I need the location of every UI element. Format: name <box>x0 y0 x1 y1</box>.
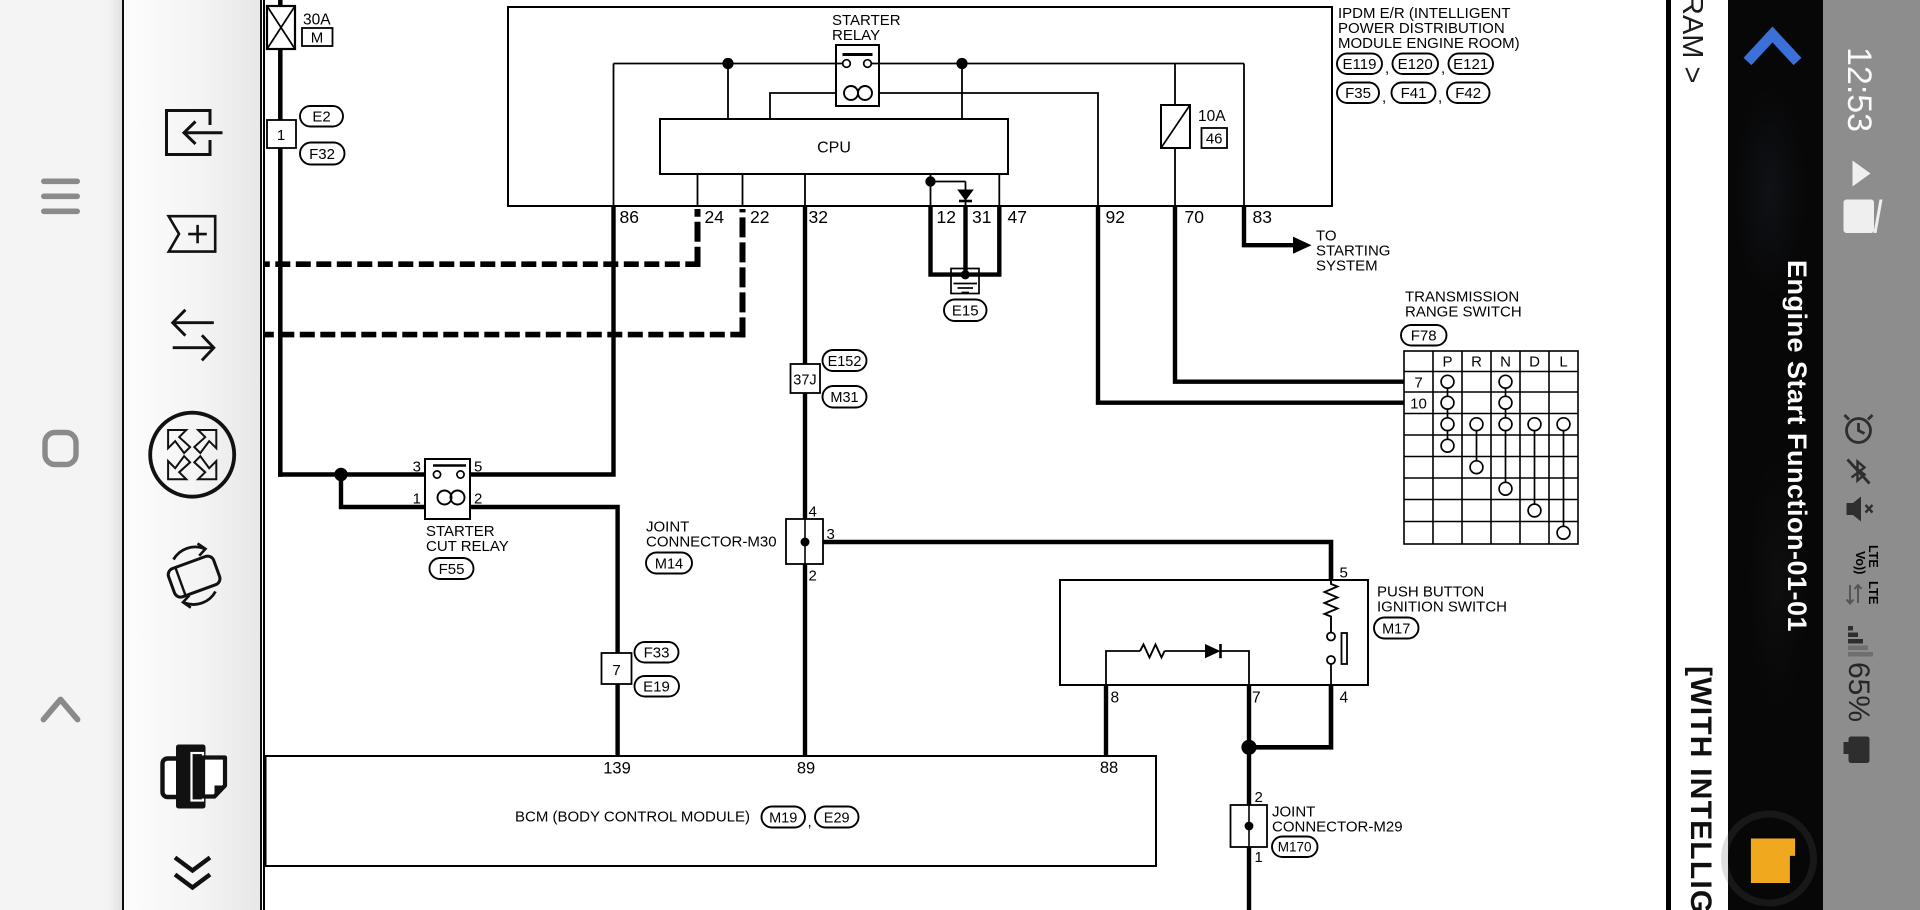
wire pin 70 to range switch row 7 <box>1175 206 1404 382</box>
status mute icon <box>1847 497 1873 522</box>
svg-text:M14: M14 <box>655 557 683 573</box>
svg-text:E2: E2 <box>312 109 330 126</box>
switch contacts column L <box>1557 418 1570 539</box>
collapse chevron (blue) <box>1748 35 1798 62</box>
arrow to starting system <box>1293 237 1312 254</box>
wire pin 7 down <box>1247 685 1251 805</box>
push button switch contacts <box>1327 633 1347 686</box>
svg-text:2: 2 <box>1255 789 1263 806</box>
svg-text:92: 92 <box>1106 207 1125 227</box>
fuse number 46 <box>1202 128 1228 148</box>
svg-text:RELAY: RELAY <box>832 27 880 44</box>
connector label E152 <box>823 350 867 371</box>
screenshot thumbnail icon <box>1751 839 1795 884</box>
tool exit icon <box>167 111 223 155</box>
svg-text:F41: F41 <box>1401 85 1427 102</box>
connector label F55 <box>430 558 474 579</box>
svg-text:BCM (BODY CONTROL MODULE): BCM (BODY CONTROL MODULE) <box>515 809 750 826</box>
svg-text:37J: 37J <box>793 373 816 389</box>
wire <box>1165 650 1206 652</box>
wire junction to CPU <box>727 64 729 120</box>
svg-text:47: 47 <box>1008 207 1027 227</box>
svg-text:CPU: CPU <box>817 140 851 157</box>
connector pin 1 (E2/F32) <box>267 120 296 148</box>
junction node on pin 12 line <box>925 176 935 186</box>
wire to pin 83 <box>1243 64 1245 207</box>
connector label E2 <box>300 106 343 127</box>
page footer text [WITH INTELLIG <box>1683 666 1717 910</box>
connector label F32 <box>300 143 345 165</box>
wire 37J to joint connector M30 <box>803 393 807 519</box>
CPU box <box>660 119 1008 174</box>
wire relay coil left to CPU <box>770 93 836 119</box>
wire pin 31 to ground <box>963 206 967 272</box>
svg-text:88: 88 <box>1100 759 1118 777</box>
starter relay <box>836 45 879 106</box>
svg-text:7: 7 <box>1252 690 1261 707</box>
switch contacts column D <box>1528 418 1541 517</box>
connector label E29 <box>815 807 859 828</box>
ground label E15 <box>944 300 987 322</box>
tool add-bookmark icon <box>169 216 216 251</box>
connector label F41 <box>1392 83 1436 104</box>
svg-text:46: 46 <box>1206 131 1223 148</box>
wire relay pin5 to IPDM pin 86 <box>470 206 614 475</box>
svg-text:Vo)): Vo)) <box>1853 551 1867 574</box>
svg-text:,: , <box>1382 89 1386 106</box>
status 65% <box>1841 662 1875 722</box>
fusible link 30A M (battery feed) <box>267 6 295 49</box>
wire M30 pin 3 to push button switch <box>823 542 1331 580</box>
starter cut relay F55 <box>425 459 470 519</box>
svg-text:F35: F35 <box>1345 85 1371 102</box>
transmission range switch contact table F78 <box>1404 351 1578 544</box>
svg-text:86: 86 <box>620 207 639 227</box>
wire relay coil to pin 92 <box>879 93 1098 206</box>
wire to starter cut relay pin 3 <box>278 472 427 476</box>
wire pin 12 to ground <box>931 206 964 275</box>
connector label F78 <box>1401 325 1447 346</box>
svg-text:10A: 10A <box>1198 108 1226 125</box>
svg-text:E121: E121 <box>1453 56 1488 73</box>
nav collapse icon <box>44 700 78 720</box>
wire M29 down off page <box>1247 847 1251 910</box>
svg-text:E29: E29 <box>824 811 850 827</box>
svg-text:3: 3 <box>413 459 421 476</box>
connector label E119 <box>1337 54 1382 75</box>
resistor R2 <box>1140 645 1165 658</box>
BCM body control module box <box>266 756 1157 866</box>
svg-text:M170: M170 <box>1278 840 1312 855</box>
status alarm icon <box>1845 415 1873 443</box>
switch contacts column R <box>1470 418 1483 474</box>
svg-text:70: 70 <box>1185 207 1205 227</box>
svg-text:M: M <box>311 30 324 47</box>
tool print icon <box>163 745 226 809</box>
wire pin 4 joins pin 7 wire <box>1249 685 1331 747</box>
wire to pin 7 <box>1221 651 1250 685</box>
wire pin 32 to joint connector 37J <box>803 206 807 364</box>
push button ignition switch box M17 <box>1060 580 1368 685</box>
connector label M14 <box>646 553 692 574</box>
svg-text:E119: E119 <box>1343 56 1377 73</box>
svg-text:83: 83 <box>1253 207 1272 227</box>
wire junction to CPU <box>961 64 963 120</box>
page header text RAM > <box>1675 0 1708 83</box>
wire relay contact to pin 86 column <box>614 63 843 65</box>
connector label E19 <box>635 676 680 697</box>
connector label F35 <box>1337 83 1379 104</box>
svg-text:F55: F55 <box>439 561 465 578</box>
svg-text:E152: E152 <box>828 354 862 370</box>
svg-text:89: 89 <box>797 760 815 778</box>
ripple highlight ring <box>1725 814 1814 903</box>
nav menu icon <box>41 179 80 215</box>
joint connector 37J (E152/M31) <box>791 364 821 393</box>
wire pin 8 to BCM pin 88 <box>1104 685 1108 756</box>
svg-text:LTE: LTE <box>1866 545 1880 568</box>
status VoLTE icon <box>1853 545 1880 574</box>
svg-text:M17: M17 <box>1382 622 1410 638</box>
svg-text:CONNECTOR-M30: CONNECTOR-M30 <box>646 534 777 551</box>
IPDM E/R module box <box>508 7 1332 206</box>
connector label M19 <box>762 807 806 828</box>
connector label M170 <box>1272 837 1318 858</box>
svg-text:M31: M31 <box>830 390 858 406</box>
svg-text:E120: E120 <box>1398 56 1433 73</box>
svg-text:32: 32 <box>809 207 828 227</box>
svg-text:F32: F32 <box>309 146 335 163</box>
svg-text:139: 139 <box>603 760 631 778</box>
wire pin 83 to starting system <box>1244 206 1293 245</box>
status dropdown triangle <box>1853 161 1871 187</box>
tool fullscreen icon <box>150 413 234 497</box>
ground E15 <box>951 269 979 294</box>
wire battery feed down left side <box>278 148 283 477</box>
shielded wire to IPDM pin 22 <box>264 209 745 337</box>
status LTE icon <box>1847 581 1882 605</box>
svg-text:F42: F42 <box>1455 85 1481 102</box>
junction node <box>956 58 967 69</box>
connector label M31 <box>823 386 867 408</box>
svg-text:E15: E15 <box>952 303 979 320</box>
tool rotate icon <box>166 544 221 608</box>
wire fuse to pin 70 <box>1174 148 1176 206</box>
svg-text:,: , <box>808 814 812 831</box>
svg-text:N: N <box>1500 354 1511 371</box>
wire branch to relay pin 1 <box>341 475 427 508</box>
column headers P R N D L <box>1410 354 1568 413</box>
tool swap icon <box>173 310 214 361</box>
wire M30 to BCM pin 89 <box>803 564 807 756</box>
svg-text:E19: E19 <box>643 679 670 696</box>
svg-text:1: 1 <box>1255 849 1263 866</box>
svg-text:M19: M19 <box>769 811 797 827</box>
wire fuse to connector 1 <box>278 49 283 120</box>
joint connector M30 (M14) <box>786 519 823 564</box>
connector label F33 <box>635 642 679 663</box>
svg-text:R: R <box>1471 354 1482 371</box>
wire relay pin2 to connector 7 <box>470 507 618 653</box>
fuse 10A 46 <box>1161 105 1190 148</box>
svg-text:D: D <box>1529 354 1540 371</box>
status signal icon <box>1848 626 1873 657</box>
svg-text:1: 1 <box>277 127 285 144</box>
status time 12:53 <box>1839 47 1878 132</box>
status battery (bottom) <box>1844 737 1870 764</box>
svg-text:4: 4 <box>1340 690 1349 707</box>
svg-text:10: 10 <box>1410 396 1427 413</box>
tool expand-more icon <box>175 858 210 888</box>
svg-text:F78: F78 <box>1411 328 1437 345</box>
svg-text:F33: F33 <box>644 645 670 662</box>
svg-text:5: 5 <box>1340 565 1348 582</box>
nav recents icon <box>45 433 76 465</box>
svg-text:4: 4 <box>809 504 817 521</box>
svg-text:7: 7 <box>1414 375 1422 392</box>
svg-text:CONNECTOR-M29: CONNECTOR-M29 <box>1272 819 1403 836</box>
wire pin 47 to ground <box>968 206 999 275</box>
junction node <box>1241 740 1256 755</box>
connector label M17 <box>1374 618 1419 639</box>
svg-text:SYSTEM: SYSTEM <box>1316 258 1378 275</box>
status battery (top) <box>1844 200 1883 234</box>
resistor R (illumination) <box>1325 580 1338 633</box>
app title Engine Start Function-01-01 <box>1781 260 1812 632</box>
CPU pin stubs <box>697 174 699 206</box>
shielded wire to IPDM pin 24 <box>264 209 700 267</box>
svg-text:LTE: LTE <box>1866 581 1881 605</box>
svg-text:P: P <box>1442 354 1452 371</box>
svg-text:31: 31 <box>972 207 991 227</box>
svg-text:,: , <box>1385 60 1389 77</box>
connector label E121 <box>1449 54 1494 75</box>
switch contacts column P <box>1441 375 1454 452</box>
svg-text:1: 1 <box>413 491 421 508</box>
svg-text:RANGE SWITCH: RANGE SWITCH <box>1405 304 1522 321</box>
junction node <box>334 468 347 481</box>
diode D2 <box>1205 644 1221 658</box>
diode D1 to pin 31 <box>931 182 974 207</box>
wire to fuse 10A <box>1174 64 1176 106</box>
switch contacts column N <box>1499 375 1512 495</box>
wire relay contact right to pin 83 corner <box>871 63 1244 65</box>
svg-text:,: , <box>1441 60 1445 77</box>
wire connector 7 to BCM pin 139 <box>615 684 619 756</box>
junction node <box>722 58 733 69</box>
svg-text:7: 7 <box>612 662 620 679</box>
connector 7 (F33/E19) <box>602 653 632 684</box>
svg-text:22: 22 <box>750 207 769 227</box>
svg-text:MODULE ENGINE ROOM): MODULE ENGINE ROOM) <box>1338 35 1520 52</box>
svg-text:IGNITION SWITCH: IGNITION SWITCH <box>1377 599 1507 616</box>
joint connector M29 (M170) <box>1231 805 1268 847</box>
svg-text:12: 12 <box>937 207 956 227</box>
connector label F42 <box>1447 83 1490 104</box>
svg-text:CUT RELAY: CUT RELAY <box>426 538 509 555</box>
fuse block label M <box>302 28 333 47</box>
svg-text:L: L <box>1559 354 1567 371</box>
internal branch wire <box>1106 651 1140 685</box>
svg-text:2: 2 <box>809 568 817 585</box>
status bluetooth-off icon <box>1848 460 1870 484</box>
svg-text:8: 8 <box>1111 690 1120 707</box>
wire pin 92 to range switch row 10 <box>1098 206 1404 403</box>
svg-text:,: , <box>1438 89 1442 106</box>
svg-text:30A: 30A <box>303 12 331 29</box>
connector label E120 <box>1393 54 1439 75</box>
svg-text:24: 24 <box>705 207 725 227</box>
wire battery feed from top <box>278 0 283 7</box>
